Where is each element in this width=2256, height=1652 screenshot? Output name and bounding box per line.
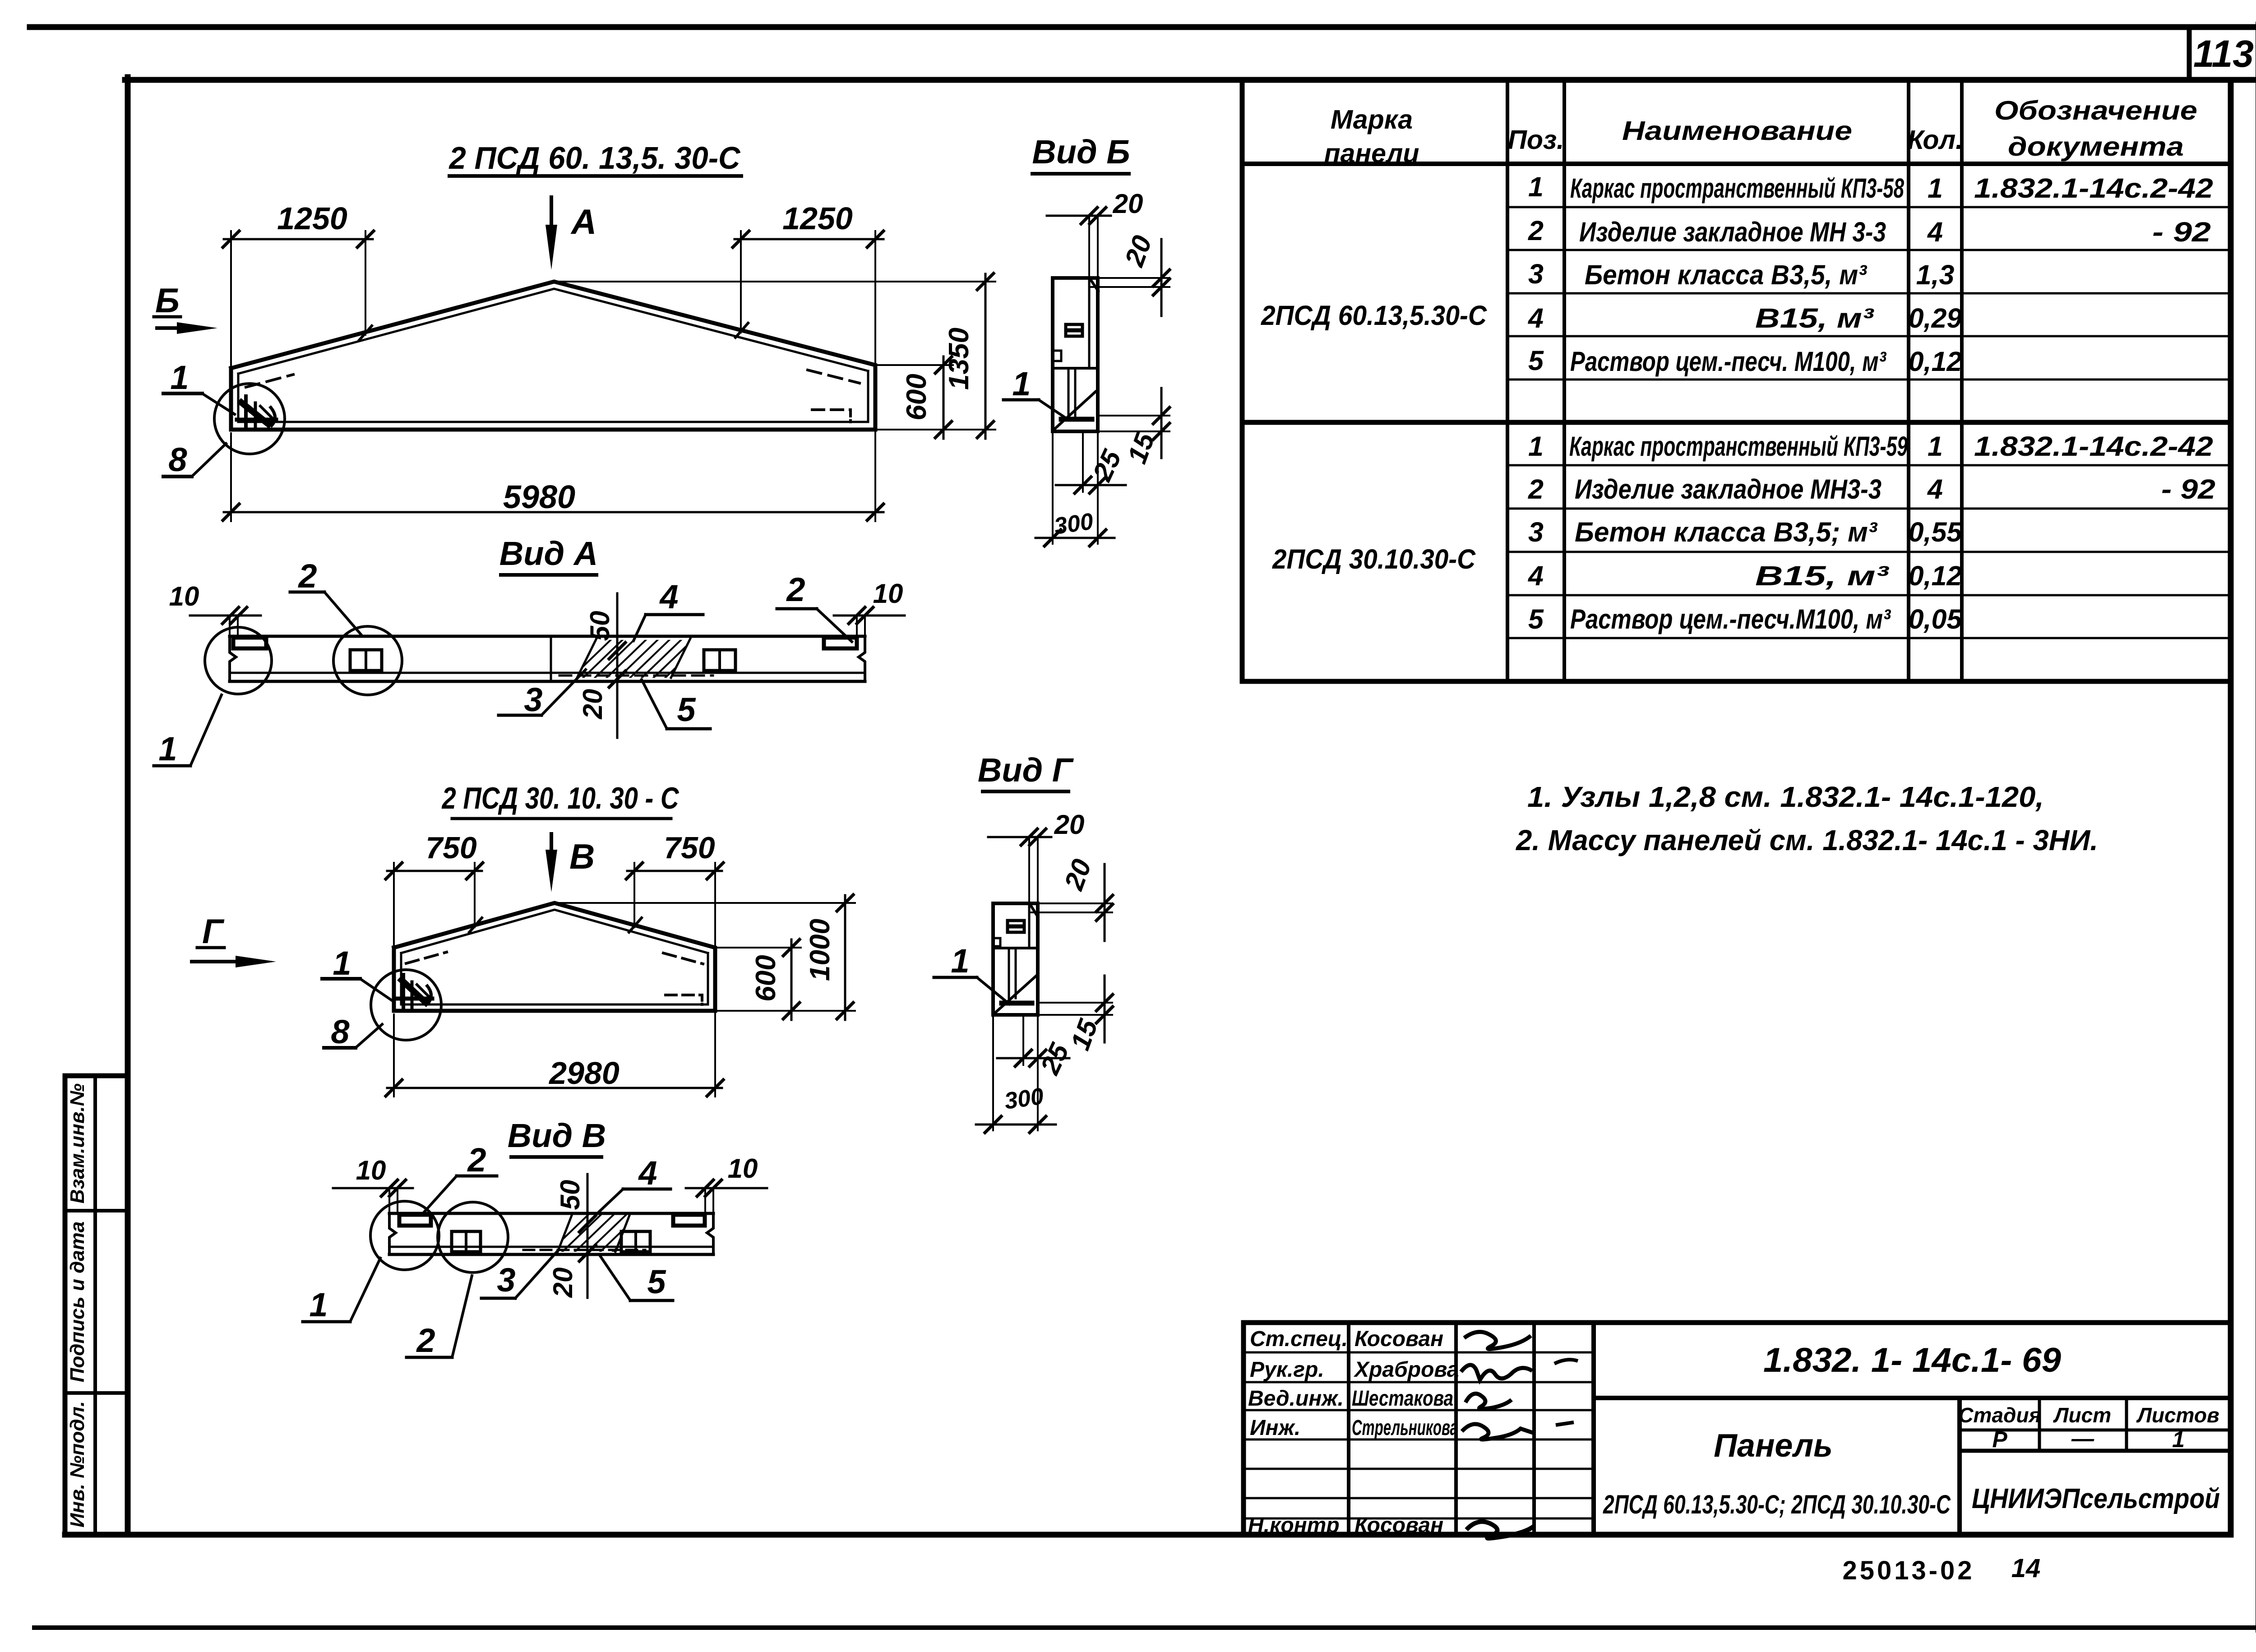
title block stadia column 1 <box>2038 1398 2041 1451</box>
dimension 750 left extension A <box>393 863 395 948</box>
table row line g2r1 <box>1507 464 2231 467</box>
svg-text:10: 10 <box>728 1153 758 1184</box>
title block signatures row line 6 <box>1244 1497 1594 1499</box>
view G dim 20 top tick B <box>1030 829 1046 845</box>
view G dim 300 line <box>976 1124 1056 1126</box>
svg-text:10: 10 <box>873 578 903 609</box>
svg-text:4: 4 <box>1527 303 1544 333</box>
svg-text:Косован: Косован <box>1355 1513 1443 1537</box>
svg-text:300: 300 <box>1053 508 1095 540</box>
view A dim 10 left line <box>190 615 261 617</box>
view A dim 10 right tick B <box>857 607 873 624</box>
view A dim 10 left tick A <box>222 607 239 624</box>
svg-text:Г: Г <box>202 912 225 951</box>
dimension 1250 right extension A <box>740 231 742 333</box>
title block signatures column line 1 <box>1347 1323 1350 1535</box>
view A hatch dashed soffit <box>559 675 713 677</box>
view G inner vertical <box>1028 906 1031 948</box>
dimension 1000 line vertical <box>844 895 846 1020</box>
svg-text:Бетон класса В3,5, м³: Бетон класса В3,5, м³ <box>1585 259 1868 290</box>
panel1 chord tick left <box>359 326 372 340</box>
view B top bevel <box>1090 279 1098 291</box>
callout 1 left underline <box>163 392 202 395</box>
view B dim 20 top extension A <box>1088 216 1090 278</box>
panel2 inner bottom line <box>401 1004 708 1006</box>
dimension 1250 left tick A <box>223 231 239 247</box>
sidebar stamp divider vertical <box>93 1076 97 1535</box>
view B dim 15 tick B <box>1153 423 1170 440</box>
panel1 chord tick right <box>735 323 748 338</box>
panel2 dashed vertical bottom right <box>701 995 703 1004</box>
view B dim 300 extension A <box>1052 431 1054 544</box>
svg-text:4: 4 <box>1527 560 1544 591</box>
dimension 750 right tick B <box>707 863 723 879</box>
dimension 5980 line <box>224 511 883 514</box>
view V dim 10 right extension A <box>704 1188 706 1213</box>
svg-text:1: 1 <box>158 730 177 768</box>
svg-text:Подпись и дата: Подпись и дата <box>66 1222 88 1383</box>
view G notch <box>993 938 1000 946</box>
svg-text:14: 14 <box>2011 1554 2041 1583</box>
title block stadia row bottom <box>1960 1429 2231 1432</box>
view arrow G head <box>236 956 276 967</box>
table column line Poz <box>1506 80 1509 681</box>
dimension 600 extension top <box>875 364 953 366</box>
view arrow V shaft <box>550 834 553 871</box>
view V hatch lines <box>546 1212 654 1255</box>
panel 1 drawing 2PSD 60.13,5.30-S <box>154 176 995 521</box>
view G callout 1 underline <box>934 976 977 979</box>
title block signatures row line 1 <box>1244 1351 1594 1354</box>
view arrow B head <box>177 322 217 334</box>
svg-text:Стадия: Стадия <box>1958 1403 2041 1427</box>
view B body rectangle <box>1053 278 1098 431</box>
svg-text:1. Узлы 1,2,8 см. 1.832.1- 14с: 1. Узлы 1,2,8 см. 1.832.1- 14с.1-120, <box>1527 781 2044 813</box>
view A callout 2 right leader <box>817 609 852 642</box>
sidebar stamp box left edge <box>63 1076 68 1535</box>
svg-text:2ПСД 60.13,5.30-С: 2ПСД 60.13,5.30-С <box>1261 300 1487 331</box>
table row line g1r3 <box>1507 292 2231 295</box>
svg-text:50: 50 <box>585 611 615 641</box>
svg-text:20: 20 <box>578 689 608 720</box>
table header texts <box>1324 96 2197 168</box>
callout 8 leader <box>192 444 226 477</box>
title block outer top <box>1244 1320 2231 1325</box>
dimension 1250 left line <box>224 238 373 241</box>
view B dim 20 top line <box>1047 215 1111 217</box>
view V callout 1 underline <box>303 1320 350 1323</box>
dimension 1350 tick A <box>977 273 994 290</box>
title block stadia column 2 <box>2125 1398 2128 1451</box>
title block stadia headers <box>1958 1403 2219 1427</box>
svg-text:ЦНИИЭПсельстрой: ЦНИИЭПсельстрой <box>1972 1483 2220 1514</box>
table row line g2r4 <box>1507 594 2231 597</box>
view B dim 15 extension A <box>1099 415 1170 416</box>
svg-text:50: 50 <box>555 1180 585 1210</box>
dimension 750 right extension A <box>633 863 635 927</box>
svg-text:4: 4 <box>1927 217 1943 247</box>
drawing frame bottom <box>65 1532 2231 1538</box>
view B mid divider <box>1053 367 1098 370</box>
sidebar stamp divider horizontal 2 <box>65 1391 128 1395</box>
svg-text:Панель: Панель <box>1714 1428 1833 1464</box>
svg-text:Инв. №подл.: Инв. №подл. <box>66 1401 88 1527</box>
view G dim 20 top extension A <box>1028 837 1030 903</box>
page top rule <box>30 24 2256 30</box>
svg-text:0,55: 0,55 <box>1909 517 1963 547</box>
svg-text:3: 3 <box>497 1261 515 1299</box>
view V strip bottom edge <box>389 1253 713 1256</box>
svg-text:Косован: Косован <box>1355 1327 1443 1351</box>
view V callout 2 top leader <box>424 1176 457 1212</box>
view V dim 10 left extension A <box>388 1188 390 1213</box>
view G dim 15 extension A <box>1039 1002 1112 1004</box>
svg-text:А: А <box>570 202 596 241</box>
title block signature names <box>1352 1327 1459 1537</box>
view B dim 20 top extension B <box>1097 216 1099 278</box>
svg-text:0,12: 0,12 <box>1909 560 1962 591</box>
view B end view <box>1003 174 1170 546</box>
dimension 1000 tick B <box>837 1003 853 1019</box>
dimension 2980 extension left <box>393 1014 395 1097</box>
svg-text:Храброва: Храброва <box>1353 1358 1459 1382</box>
dimension 5980 tick A <box>223 504 239 520</box>
svg-text:3: 3 <box>1528 259 1544 289</box>
svg-text:1: 1 <box>1528 171 1544 202</box>
view V callout 2 bottom leader <box>452 1276 472 1357</box>
view V dim 10 left line <box>333 1187 413 1189</box>
title block signatures row line 2 <box>1244 1381 1594 1384</box>
dimension 600 line vertical <box>943 356 945 439</box>
table row line g1r2 <box>1507 249 2231 251</box>
svg-text:Н.контр: Н.контр <box>1248 1513 1340 1537</box>
view B callout 1 underline <box>1003 398 1039 402</box>
view arrow A head <box>546 225 557 270</box>
svg-text:1: 1 <box>309 1286 328 1323</box>
view V callout 2 top underline <box>457 1175 497 1178</box>
view V left notch <box>399 1215 431 1226</box>
view A dim 10 right line <box>834 615 905 617</box>
panel2 node weld blob <box>402 980 426 1003</box>
drawing frame left <box>125 77 131 1535</box>
dimension 600 tick A <box>935 357 952 373</box>
view A dim 10 left extension B <box>237 615 239 636</box>
view A callout 2 right underline <box>777 607 817 611</box>
title block stadia values bottom <box>1960 1449 2231 1453</box>
svg-text:Шестакова: Шестакова <box>1352 1387 1453 1411</box>
view V section tick bottom <box>579 1245 596 1261</box>
view G dim 300 extension A <box>992 1015 994 1130</box>
dimension 750 left tick A <box>386 863 402 879</box>
svg-text:2: 2 <box>416 1322 435 1359</box>
svg-text:25: 25 <box>1087 444 1128 486</box>
panel1 dashed embed right <box>808 370 860 383</box>
view G dim 20 top extension B <box>1037 837 1039 903</box>
dimension 600 p2 extension top <box>715 947 801 949</box>
dimension 1250 right tick A <box>733 231 749 247</box>
panel2 node vertical bar 1 <box>402 975 405 1009</box>
svg-text:1.832.1-14с.2-42: 1.832.1-14с.2-42 <box>1974 431 2213 462</box>
drawing frame top <box>125 77 2256 83</box>
view V dim 10 left tick A <box>381 1180 398 1196</box>
view G dim 25 extension A <box>1022 1015 1024 1065</box>
view G diagonal <box>995 976 1036 1013</box>
drawing frame right <box>2228 80 2234 1535</box>
dimension 750 right tick A <box>626 863 643 879</box>
svg-text:Раствор цем.-песч. М100, м³: Раствор цем.-песч. М100, м³ <box>1570 346 1886 377</box>
view arrow B underline <box>154 315 180 319</box>
view A embedded plate left divider <box>365 650 367 671</box>
svg-text:5: 5 <box>1528 604 1544 634</box>
svg-text:2: 2 <box>297 557 317 595</box>
svg-text:0,29: 0,29 <box>1909 303 1962 333</box>
callout 1 left leader <box>202 393 235 414</box>
sidebar stamp divider horizontal 1 <box>65 1209 128 1212</box>
view V hatch dashed soffit <box>523 1249 645 1251</box>
view A section tick top <box>609 643 625 659</box>
panel1 title underline <box>449 174 741 178</box>
svg-text:2 ПСД 30. 10. 30 - С: 2 ПСД 30. 10. 30 - С <box>441 781 679 815</box>
title block signatures row line 7 <box>1244 1518 1594 1520</box>
view V callout 1 leader <box>350 1258 380 1322</box>
svg-text:Лист: Лист <box>2053 1403 2111 1427</box>
view G dim 20 right line <box>1104 864 1106 941</box>
svg-text:20: 20 <box>1054 810 1085 840</box>
dimension 1250 left tick B <box>357 231 374 247</box>
dimension 1000 extension apex <box>555 902 855 904</box>
svg-text:Р: Р <box>1992 1427 2007 1452</box>
view A hatch block left boundary <box>577 639 596 678</box>
dimension 600 p2 line vertical <box>791 939 793 1020</box>
svg-text:8: 8 <box>168 441 187 478</box>
view B dim 25 tick B <box>1090 477 1106 493</box>
view V dim 10 left extension B <box>397 1188 398 1213</box>
view A left notch <box>233 638 266 648</box>
view B dim 25 extension A <box>1082 431 1084 492</box>
svg-text:Рук.гр.: Рук.гр. <box>1250 1358 1324 1382</box>
panel2 inner left edge <box>400 953 402 1004</box>
svg-text:1350: 1350 <box>943 328 975 390</box>
view V detail circle 2 <box>438 1202 508 1273</box>
view A callout 2 left leader <box>324 592 361 634</box>
svg-text:20: 20 <box>1119 231 1157 271</box>
svg-text:5: 5 <box>1528 345 1544 376</box>
dimension 1000 tick A <box>837 895 853 911</box>
dimension 2980 line <box>387 1087 722 1089</box>
view A embedded plate right <box>704 650 735 671</box>
view G dim 20 right extension A <box>1039 902 1112 904</box>
dimension 1250 left extension A <box>230 231 232 368</box>
title block doc number cell bottom <box>1594 1396 2231 1400</box>
svg-text:2ПСД 30.10.30-С: 2ПСД 30.10.30-С <box>1272 544 1476 574</box>
view A detail circle 2 <box>333 626 402 695</box>
svg-text:0,12: 0,12 <box>1909 346 1962 377</box>
view B dim 300 line <box>1036 537 1114 539</box>
dimension 750 left line <box>387 870 482 872</box>
dimension 600 tick B <box>935 421 952 438</box>
view G dim 300 tick A <box>985 1116 1001 1133</box>
view G dim 20 right tick B <box>1096 904 1113 921</box>
dimension 5980 tick B <box>867 504 883 520</box>
svg-text:Б: Б <box>155 282 180 320</box>
panel2 node vertical bar 2 <box>411 982 414 1009</box>
panel2 chord tick left <box>469 918 482 932</box>
view V detail circle 1 <box>370 1201 439 1270</box>
panel1 inner bottom line <box>238 421 868 423</box>
svg-text:Изделие закладное МН 3-3: Изделие закладное МН 3-3 <box>1579 217 1886 247</box>
view V embedded plate right <box>621 1231 650 1252</box>
view V embedded plate left <box>452 1231 481 1252</box>
detail circle node 1 panel1 <box>214 384 285 454</box>
view A dim 10 left tick B <box>231 607 247 624</box>
svg-text:Вид Б: Вид Б <box>1032 133 1130 171</box>
view G dim 25 tick B <box>1030 1050 1046 1066</box>
dimension 1000 extension bottom <box>715 1010 855 1012</box>
svg-text:Каркас пространственный КП3-58: Каркас пространственный КП3-58 <box>1570 173 1904 204</box>
table row line g2r3 <box>1507 551 2231 553</box>
view B bottom bar <box>1061 417 1092 422</box>
view G dim 15 extension B <box>1039 1014 1112 1016</box>
view B dim 25 tick A <box>1075 477 1091 493</box>
svg-text:5980: 5980 <box>503 479 575 515</box>
svg-text:750: 750 <box>664 831 715 865</box>
signature squiggle row 2 <box>1461 1365 1532 1380</box>
panel2 dashed embed left <box>406 952 447 963</box>
view B dim 20 right extension B <box>1091 286 1170 288</box>
view B dim 20 right tick A <box>1153 270 1170 286</box>
svg-text:2: 2 <box>786 571 805 608</box>
svg-text:Ст.спец.: Ст.спец. <box>1250 1327 1348 1351</box>
view A callout 4 underline <box>646 613 703 616</box>
svg-text:Вид А: Вид А <box>499 535 598 572</box>
node detail weld blob <box>241 403 268 424</box>
view G dim 25 tick A <box>1015 1050 1031 1066</box>
panel1 dashed embed bottom right <box>812 408 851 411</box>
dimension 2980 tick B <box>707 1080 723 1096</box>
dimension 600 p2 tick B <box>783 1003 800 1019</box>
node detail vertical bar 1 <box>244 396 248 426</box>
svg-text:2. Массу панелей см. 1.832.1-: 2. Массу панелей см. 1.832.1- 14с.1 - 3Н… <box>1516 824 2098 856</box>
svg-text:1250: 1250 <box>277 201 347 236</box>
view G dim 25 line <box>997 1057 1069 1060</box>
panel2 title underline <box>452 817 671 820</box>
view B dim 300 tick A <box>1045 530 1061 546</box>
svg-text:20: 20 <box>1113 189 1143 219</box>
table left edge <box>1240 80 1245 681</box>
svg-text:Вид Г: Вид Г <box>978 751 1074 789</box>
panel 2 drawing 2PSD 30.10.30-S <box>192 819 855 1097</box>
svg-text:2ПСД 60.13,5.30-С; 2ПСД 30.10.: 2ПСД 60.13,5.30-С; 2ПСД 30.10.30-С <box>1603 1490 1951 1519</box>
svg-text:1.832. 1- 14с.1- 69: 1.832. 1- 14с.1- 69 <box>1763 1341 2061 1379</box>
svg-text:8: 8 <box>331 1013 350 1050</box>
view G end view <box>934 791 1113 1133</box>
dimension 2980 tick A <box>386 1080 402 1096</box>
svg-text:Инж.: Инж. <box>1250 1416 1300 1440</box>
dimension 750 right extension long <box>714 863 716 1097</box>
view G dim 15 line <box>1104 976 1106 1042</box>
panel2 node bent bar <box>427 986 431 1003</box>
svg-text:2980: 2980 <box>548 1055 619 1091</box>
view V embedded plate left divider <box>465 1231 467 1252</box>
svg-text:1: 1 <box>1012 365 1031 403</box>
view V hatch block right boundary <box>615 1214 630 1252</box>
svg-text:1: 1 <box>1928 173 1943 204</box>
svg-text:2 ПСД 60. 13,5. 30-С: 2 ПСД 60. 13,5. 30-С <box>448 140 741 176</box>
svg-text:5: 5 <box>677 691 696 728</box>
view A callout 2 left underline <box>290 591 324 594</box>
svg-text:20: 20 <box>1058 855 1097 894</box>
view G dim 25 extension B <box>1037 1015 1039 1065</box>
node detail bent bar <box>271 407 275 426</box>
view G dim 20 top line <box>988 836 1051 838</box>
view V plan strip <box>303 1157 767 1357</box>
sidebar stamp box top edge <box>65 1074 128 1078</box>
signature squiggle row 1 <box>1464 1332 1531 1349</box>
svg-text:документа: документа <box>2008 132 2184 162</box>
svg-text:1: 1 <box>1928 431 1943 462</box>
view A strip left break edge <box>230 636 236 681</box>
view A callout 3 underline <box>499 714 541 717</box>
view G dim 20 right tick A <box>1096 895 1113 912</box>
view A strip bottom edge <box>230 680 865 683</box>
view V dim 10 right line <box>686 1187 767 1189</box>
svg-text:Стрельникова: Стрельникова <box>1352 1416 1458 1440</box>
view B dim 300 extension B <box>1097 492 1099 544</box>
svg-text:панели: панели <box>1324 139 1419 168</box>
svg-text:10: 10 <box>356 1155 386 1185</box>
panel1 dashed vertical right <box>849 410 852 422</box>
view G dim 20 right extension B <box>1031 912 1112 913</box>
svg-text:5: 5 <box>647 1263 666 1300</box>
view V section line <box>587 1174 589 1298</box>
svg-text:Бетон класса В3,5; м³: Бетон класса В3,5; м³ <box>1575 517 1878 547</box>
svg-text:2: 2 <box>1528 215 1544 246</box>
view G dim 15 tick B <box>1096 1007 1113 1023</box>
table row line g2r5 <box>1507 637 2231 639</box>
svg-text:20: 20 <box>548 1268 578 1298</box>
dimension 750 left tick B <box>467 863 483 879</box>
view A right notch <box>824 638 857 648</box>
title block <box>1244 1323 2231 1535</box>
svg-text:Поз.: Поз. <box>1508 125 1564 155</box>
view V dim 10 right extension B <box>712 1188 714 1213</box>
panel2 callout 8 leader <box>356 1024 382 1048</box>
svg-text:1: 1 <box>333 944 351 982</box>
view G body rectangle <box>993 903 1038 1015</box>
view A callout 4 leader <box>633 615 646 641</box>
panel2 outer outline <box>394 903 715 1011</box>
view A section tick bottom <box>609 671 625 687</box>
view B dim 20 right tick B <box>1153 279 1170 295</box>
panel1 inner top chord line <box>238 289 868 374</box>
table column line Kol <box>1907 80 1910 681</box>
view G title underline <box>983 790 1068 793</box>
panel2 inner top chord line <box>401 910 708 953</box>
table column line Oboznachenie <box>1960 80 1964 681</box>
dimension 1350 extension bottom <box>875 429 995 430</box>
view B dim 15 line <box>1160 388 1163 458</box>
svg-text:В15, м³: В15, м³ <box>1755 560 1889 591</box>
view V hatch block left boundary <box>558 1214 572 1252</box>
dimension 600 p2 tick A <box>783 939 800 956</box>
table row line g2r2 <box>1507 508 2231 510</box>
view A callout 1 leader <box>190 695 222 766</box>
signature squiggle row 4 dash <box>1556 1422 1574 1425</box>
view A callout 1 underline <box>154 764 190 768</box>
view B dim 20 top tick A <box>1081 208 1097 224</box>
title block signatures column line 2 <box>1454 1323 1458 1535</box>
view B diagonal <box>1055 392 1096 429</box>
